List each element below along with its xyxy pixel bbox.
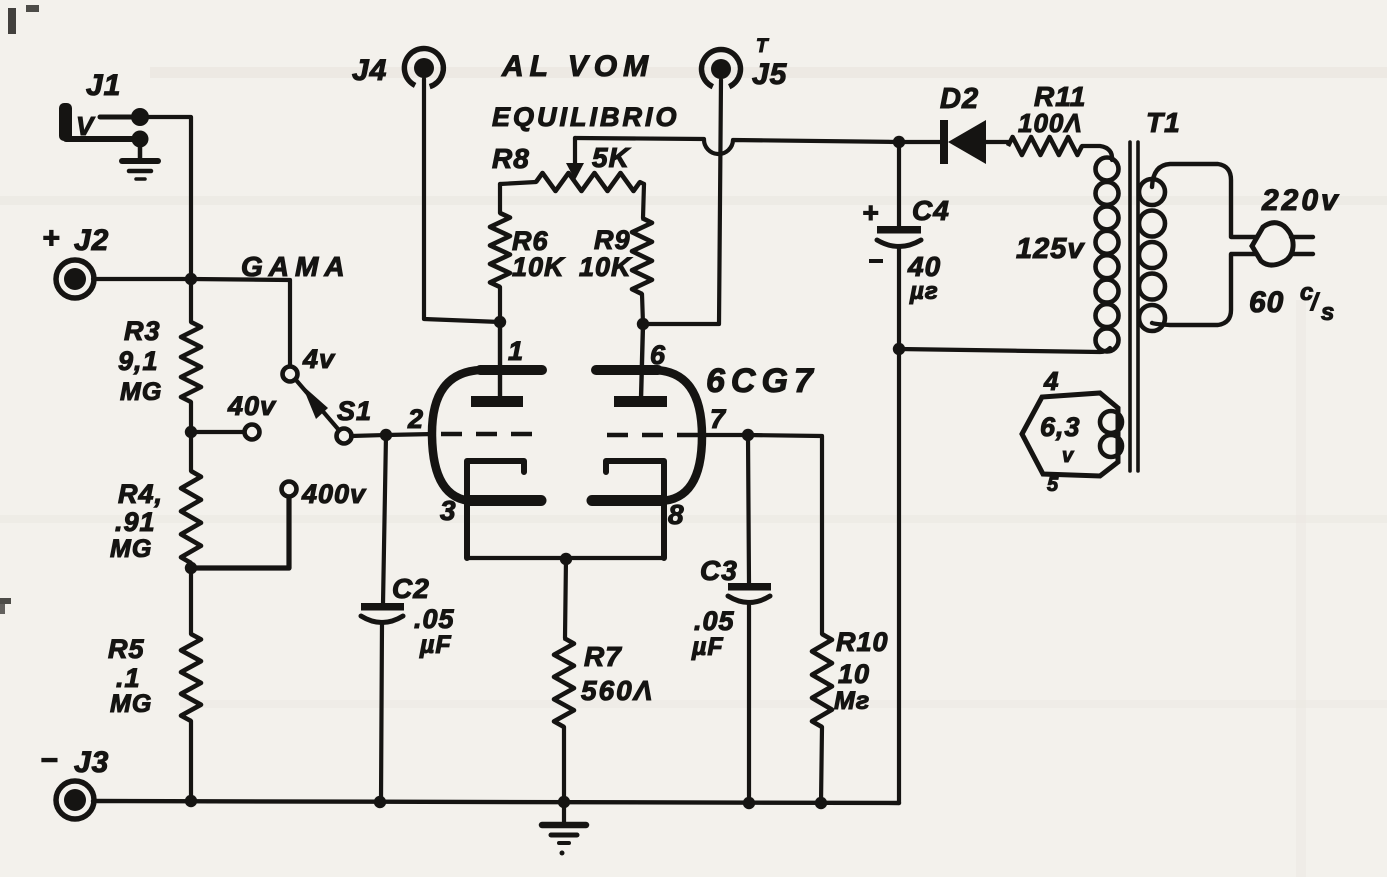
svg-text:C3: C3	[700, 555, 738, 586]
svg-text:µF: µF	[691, 633, 724, 661]
svg-text:R5: R5	[108, 634, 145, 664]
wire D2 to R11	[986, 140, 1008, 144]
scan artifact marks top-left corner	[8, 5, 39, 34]
wire node to R7	[565, 558, 566, 638]
wire node to D2	[899, 140, 940, 144]
wire node to C3	[748, 435, 749, 583]
switch S1 arm	[296, 380, 338, 429]
svg-text:S1: S1	[337, 396, 372, 426]
svg-text:1: 1	[508, 336, 524, 366]
capacitor C3	[728, 583, 771, 603]
svg-text:J2: J2	[74, 224, 109, 257]
svg-text:4v: 4v	[302, 344, 336, 374]
resistor R10	[812, 634, 832, 727]
svg-text:v: v	[1062, 445, 1075, 467]
svg-text:10K: 10K	[512, 252, 566, 282]
cathode of triode 1	[467, 461, 524, 558]
svg-text:.1: .1	[116, 663, 141, 693]
wire wiper to rectifier node (hop over J5 wire)	[575, 138, 899, 154]
wire R10 to bus	[821, 727, 822, 803]
wire J1 to main vertical	[140, 117, 191, 279]
wire pin6	[641, 324, 643, 399]
svg-text:10: 10	[838, 659, 870, 689]
svg-text:40v: 40v	[227, 391, 277, 421]
contact 4v	[283, 367, 298, 382]
terminal J4	[404, 48, 443, 86]
wire R4 to R5	[189, 563, 193, 634]
svg-text:T1: T1	[1146, 107, 1181, 138]
wire C4 to primary bottom node	[897, 246, 901, 349]
wire R6 to node	[498, 287, 502, 322]
svg-text:µг: µг	[909, 278, 939, 305]
ground symbol	[542, 802, 586, 856]
svg-text:/: /	[1310, 289, 1320, 316]
resistor R5	[181, 634, 201, 721]
wire C3 to bus	[747, 602, 751, 803]
svg-text:+: +	[862, 197, 879, 228]
contact S1 common	[337, 429, 352, 444]
svg-text:C2: C2	[392, 573, 430, 604]
capacitor C4	[877, 226, 921, 247]
svg-text:.05: .05	[694, 606, 735, 636]
label R3 9,1 MG	[118, 316, 162, 406]
plug prongs	[1291, 237, 1313, 254]
svg-text:EQUILIBRIO: EQUILIBRIO	[492, 102, 680, 132]
terminal J5	[702, 50, 741, 87]
R8 wiper arrow	[566, 138, 584, 180]
node J1 tip	[131, 108, 149, 126]
diode D2	[940, 120, 986, 164]
svg-text:C4: C4	[912, 195, 950, 226]
svg-text:V: V	[76, 111, 96, 141]
label 6,3 v	[1040, 412, 1081, 467]
node rectifier top	[893, 136, 905, 148]
wire node to C2	[383, 435, 386, 604]
tube envelope right half	[592, 370, 702, 501]
svg-text:MG: MG	[110, 535, 152, 563]
resistor R3	[181, 322, 201, 402]
terminal J3 label	[40, 744, 109, 779]
resistor R11	[1008, 137, 1082, 155]
ground bus wire	[93, 801, 899, 803]
svg-text:R7: R7	[584, 641, 622, 672]
svg-text:J5: J5	[752, 58, 788, 91]
svg-text:5K: 5K	[592, 142, 631, 173]
svg-text:−: −	[40, 744, 59, 777]
wire cathode join	[467, 556, 664, 560]
label R4 .91 MG	[110, 479, 163, 563]
wire R8 left to R6	[498, 184, 502, 213]
wire R8 right to R9	[643, 184, 644, 218]
T1 primary winding	[1096, 158, 1119, 352]
svg-text:s: s	[1321, 299, 1335, 326]
svg-text:4: 4	[1043, 366, 1059, 396]
resistor R9	[632, 218, 652, 294]
svg-text:R4,: R4,	[118, 479, 163, 509]
node S1/grid/C2	[380, 429, 392, 441]
wire pin1	[498, 322, 502, 399]
svg-text:.91: .91	[115, 507, 156, 537]
wire node to C4	[897, 142, 901, 226]
wire J5 down to R9 bottom node	[643, 80, 721, 324]
svg-text:2: 2	[407, 404, 424, 434]
wire node to R10	[748, 435, 822, 634]
svg-text:+: +	[42, 222, 61, 255]
node R6/J4/pin1	[494, 316, 506, 328]
grid of triode 2 (dashed, pin 7)	[607, 433, 700, 437]
label C4 -	[869, 259, 883, 263]
svg-text:10K: 10K	[579, 252, 633, 282]
svg-text:9,1: 9,1	[118, 346, 159, 376]
svg-text:R10: R10	[836, 627, 889, 657]
wire GAMA branch to 4v contact	[191, 279, 290, 366]
secondary to plug wiring	[1152, 164, 1257, 325]
svg-text:400v: 400v	[301, 479, 367, 509]
wire S1 common to grid node	[351, 435, 386, 436]
cathode of triode 2	[606, 461, 664, 558]
svg-text:MG: MG	[110, 690, 152, 718]
jack J1 symbol	[59, 103, 139, 141]
resistor R7	[554, 638, 574, 727]
svg-text:GAMA: GAMA	[241, 251, 351, 282]
svg-text:Mг: Mг	[834, 687, 870, 715]
plate of triode 1	[471, 396, 523, 407]
wire 40v contact to main vertical	[191, 430, 244, 434]
T1 core	[1130, 142, 1138, 471]
terminal J2 label	[42, 222, 109, 257]
node main/J2	[185, 273, 197, 285]
svg-text:J4: J4	[352, 54, 387, 87]
node J1 sleeve	[132, 131, 149, 148]
tube envelope left half	[432, 370, 542, 501]
svg-text:6CG7: 6CG7	[706, 362, 819, 400]
label R5 .1 MG	[108, 634, 152, 718]
svg-text:6,3: 6,3	[1040, 412, 1081, 442]
terminal J3	[56, 781, 94, 819]
svg-text:.05: .05	[414, 604, 455, 634]
node cathodes/R7	[560, 553, 572, 565]
node C4/primary	[893, 343, 905, 355]
svg-text:3: 3	[440, 495, 457, 526]
svg-text:125v: 125v	[1016, 233, 1085, 265]
wire J2 to main vertical	[93, 277, 191, 281]
main vertical wire J1 to R3	[189, 279, 193, 322]
svg-text:MG: MG	[120, 378, 162, 406]
svg-text:7: 7	[710, 404, 727, 434]
svg-text:T: T	[756, 36, 769, 57]
svg-text:R3: R3	[124, 316, 161, 346]
potentiometer R8	[500, 173, 644, 191]
wire R9 to node	[642, 294, 643, 324]
node bus/R7/ground	[558, 796, 570, 808]
svg-text:560Λ: 560Λ	[581, 675, 654, 706]
node bus/R10	[815, 797, 827, 809]
svg-text:220v: 220v	[1261, 184, 1341, 217]
svg-text:5: 5	[1047, 474, 1059, 496]
resistor R4	[181, 471, 201, 563]
wire R3 to R4	[189, 402, 193, 471]
wire node down to bus corner	[897, 349, 901, 803]
grid of triode 1 (dashed, pin 2)	[441, 432, 540, 436]
node bus/C2	[374, 796, 386, 808]
6.3v heater winding	[1022, 393, 1122, 476]
contact 400v	[282, 482, 297, 497]
scan artifact mark left edge	[0, 598, 11, 614]
resistor R6	[490, 213, 510, 287]
capacitor C2	[361, 603, 404, 623]
svg-text:R9: R9	[594, 225, 631, 255]
wire R11 to primary top	[1082, 146, 1112, 160]
mains plug	[1252, 223, 1293, 265]
T1 secondary winding	[1139, 179, 1165, 331]
svg-text:AL VOM: AL VOM	[501, 50, 654, 83]
svg-text:J1: J1	[86, 69, 121, 102]
wire node to tube grid pin2	[386, 434, 434, 435]
wire J4 down to R6 bottom node	[424, 79, 500, 322]
terminal J5 label	[752, 36, 788, 91]
wire R5 to ground bus	[189, 721, 193, 802]
tube envelope flat reinforcement	[468, 370, 663, 501]
contact 40v	[245, 425, 260, 440]
svg-text:100Λ: 100Λ	[1018, 108, 1083, 138]
svg-text:60: 60	[1249, 286, 1284, 319]
wire C2 to bus	[381, 622, 382, 802]
svg-text:µF: µF	[419, 631, 452, 659]
ground at J1	[122, 139, 158, 179]
svg-text:J3: J3	[74, 746, 109, 779]
wire 400v contact to main vertical	[191, 497, 289, 568]
terminal J2	[56, 260, 94, 298]
node R9/J5/pin6	[637, 318, 649, 330]
node pin7/C3/R10	[742, 429, 754, 441]
node main/400v	[185, 562, 197, 574]
label 60 c/s	[1249, 279, 1335, 326]
wire R7 to bus	[562, 727, 566, 802]
node bus/C3	[743, 797, 755, 809]
svg-text:D2: D2	[940, 83, 979, 115]
node main/40v	[185, 426, 197, 438]
wire J1 tip to node	[100, 115, 139, 120]
plate of triode 2	[614, 396, 667, 407]
wire primary bottom to C4 node	[899, 348, 1110, 352]
svg-text:8: 8	[668, 499, 685, 530]
svg-text:R8: R8	[492, 143, 530, 174]
node bus/main	[185, 795, 197, 807]
wire pin7 to node	[702, 433, 748, 437]
